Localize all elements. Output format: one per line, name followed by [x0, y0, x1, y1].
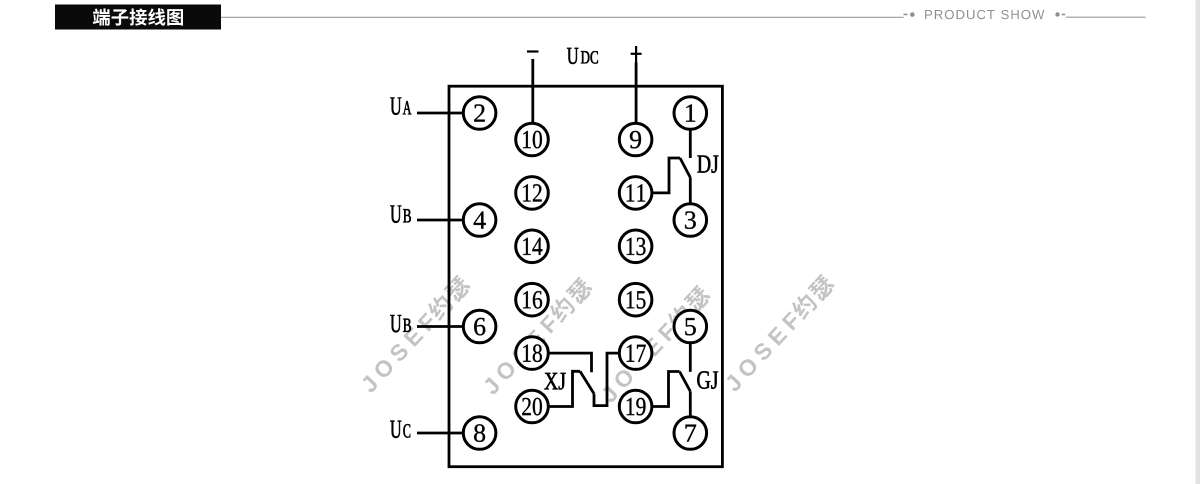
- label UC: [390, 421, 410, 438]
- watermark JOSEF约瑟 1: [357, 273, 473, 395]
- title bar 端子接线图: [55, 5, 221, 30]
- wire terminal 5 to GJ contact: [689, 343, 692, 372]
- terminal 9: [619, 123, 652, 156]
- terminal 10: [516, 123, 549, 156]
- header ornament dash left: [904, 13, 908, 15]
- wire terminal 18 to XJ contact: [549, 353, 592, 372]
- right edge strip: [1196, 0, 1200, 484]
- label GJ: [697, 371, 718, 389]
- wire terminal 1 to DJ contact: [689, 130, 692, 159]
- wire UB to terminal 6: [417, 325, 464, 328]
- label UDC: [567, 48, 598, 64]
- terminal 17: [619, 337, 652, 370]
- terminal 8: [463, 417, 496, 450]
- wire plus to terminal 9: [635, 63, 638, 124]
- terminal 12: [516, 177, 549, 210]
- terminal 13: [619, 230, 652, 263]
- terminal 19: [619, 390, 652, 423]
- terminal 11: [619, 177, 652, 210]
- watermark JOSEF约瑟 4: [721, 272, 837, 394]
- header ornament dash right: [1062, 14, 1066, 16]
- header ornament dot left: [910, 12, 915, 17]
- terminal 14: [516, 230, 549, 263]
- label XJ: [544, 373, 565, 390]
- header rule left: [221, 16, 904, 18]
- watermark JOSEF约瑟 2: [479, 275, 595, 397]
- terminal 16: [516, 283, 549, 316]
- terminal 1: [674, 97, 707, 130]
- minus sign: [527, 50, 539, 52]
- wire UB to terminal 4: [417, 219, 464, 222]
- label DJ: [697, 156, 718, 173]
- header text PRODUCT SHOW: [925, 10, 1044, 19]
- terminal 15: [619, 283, 652, 316]
- terminal 7: [674, 417, 707, 450]
- terminal 6: [463, 310, 496, 343]
- wire minus to terminal 10: [531, 59, 534, 123]
- relay contact GJ (19-7): [652, 372, 680, 407]
- wire UC to terminal 8: [417, 432, 464, 435]
- terminal 3: [674, 204, 707, 237]
- header rule right: [1066, 16, 1146, 18]
- plus sign: [631, 46, 642, 63]
- terminal 18: [516, 337, 549, 370]
- terminal block outline: [449, 86, 722, 467]
- terminal 4: [463, 204, 496, 237]
- label UB (terminal 4): [390, 206, 411, 223]
- label UB (terminal 6): [390, 315, 411, 332]
- terminal 20: [516, 390, 549, 423]
- relay contact DJ (11-3): [652, 158, 680, 193]
- relay contact XJ (20-17): [549, 371, 581, 406]
- terminal 5: [674, 310, 707, 343]
- label UA: [390, 98, 411, 115]
- terminal 2: [463, 97, 496, 130]
- header ornament dot right: [1055, 12, 1059, 16]
- wire UA to terminal 2: [417, 112, 464, 115]
- watermark JOSEF约瑟 3: [597, 283, 713, 405]
